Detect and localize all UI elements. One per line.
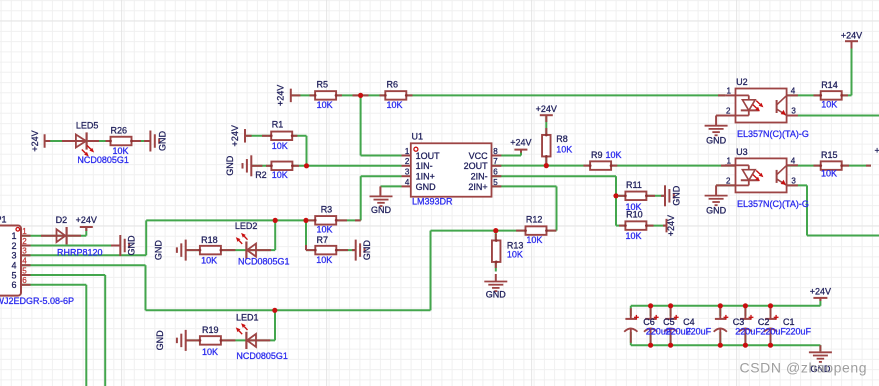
svg-text:R7: R7 (317, 235, 329, 245)
svg-text:U1: U1 (412, 132, 424, 142)
svg-text:EL357N(C)(TA)-G: EL357N(C)(TA)-G (737, 199, 809, 209)
svg-text:220uF: 220uF (786, 326, 812, 336)
svg-text:GND: GND (154, 240, 164, 261)
svg-text:U3: U3 (736, 147, 748, 157)
svg-text:10K: 10K (317, 100, 333, 110)
svg-text:4: 4 (11, 261, 16, 271)
svg-text:GND: GND (486, 290, 507, 300)
svg-text:LED5: LED5 (76, 121, 99, 131)
svg-text:C1: C1 (783, 317, 795, 327)
svg-text:10K: 10K (507, 250, 523, 260)
svg-text:R26: R26 (111, 125, 128, 135)
svg-text:+24V: +24V (230, 125, 240, 146)
svg-text:2OUT: 2OUT (464, 161, 489, 171)
svg-text:R15: R15 (821, 150, 838, 160)
svg-text:+24V: +24V (841, 31, 862, 41)
svg-text:5: 5 (11, 270, 16, 280)
svg-text:1: 1 (22, 227, 27, 236)
svg-text:R5: R5 (317, 80, 329, 90)
svg-text:GND: GND (371, 205, 392, 215)
svg-text:10K: 10K (387, 100, 403, 110)
svg-text:1IN-: 1IN- (416, 161, 433, 171)
svg-text:GND: GND (416, 182, 437, 192)
svg-text:WJ2EDGR-5.08-6P: WJ2EDGR-5.08-6P (0, 296, 74, 306)
svg-text:R14: R14 (821, 80, 838, 90)
svg-text:R10: R10 (626, 210, 643, 220)
svg-text:GND: GND (225, 155, 235, 176)
svg-text:10K: 10K (272, 141, 288, 151)
svg-text:R3: R3 (321, 205, 333, 215)
svg-text:R19: R19 (202, 325, 219, 335)
svg-text:4: 4 (22, 257, 27, 266)
svg-text:R6: R6 (387, 80, 399, 90)
svg-text:4: 4 (405, 178, 410, 187)
svg-text:2IN+: 2IN+ (468, 182, 487, 192)
svg-text:GND: GND (706, 136, 727, 146)
svg-text:C3: C3 (733, 317, 745, 327)
svg-text:GND: GND (672, 185, 682, 206)
svg-text:R9: R9 (591, 150, 603, 160)
svg-text:C2: C2 (758, 317, 770, 327)
svg-text:6: 6 (493, 168, 498, 177)
svg-text:R18: R18 (201, 235, 218, 245)
svg-text:U2: U2 (736, 77, 748, 87)
svg-text:GND: GND (155, 330, 165, 351)
svg-text:2: 2 (11, 241, 16, 251)
svg-text:2: 2 (22, 237, 27, 246)
svg-text:10K: 10K (526, 235, 542, 245)
svg-text:2IN-: 2IN- (471, 172, 488, 182)
svg-text:10K: 10K (606, 150, 622, 160)
svg-text:220uF: 220uF (735, 326, 761, 336)
svg-text:GND: GND (127, 235, 137, 256)
svg-text:3: 3 (791, 107, 796, 116)
svg-text:10K: 10K (201, 256, 217, 266)
svg-text:C4: C4 (683, 317, 695, 327)
svg-text:3: 3 (11, 251, 16, 261)
svg-text:+24V: +24V (276, 85, 286, 106)
svg-text:C6: C6 (643, 317, 655, 327)
svg-text:+24V: +24V (810, 287, 831, 297)
svg-text:2: 2 (726, 107, 731, 116)
svg-text:8: 8 (493, 147, 498, 156)
svg-text:R12: R12 (526, 215, 543, 225)
svg-text:7: 7 (493, 157, 498, 166)
svg-text:3: 3 (405, 168, 410, 177)
svg-text:GND: GND (158, 131, 168, 152)
svg-text:2: 2 (405, 157, 410, 166)
svg-text:2: 2 (726, 177, 731, 186)
svg-text:CSDN @zhaopeng: CSDN @zhaopeng (740, 360, 868, 376)
svg-text:GND: GND (362, 240, 372, 261)
svg-text:10K: 10K (821, 169, 837, 179)
svg-text:3: 3 (22, 247, 27, 256)
svg-text:5: 5 (22, 266, 27, 275)
svg-text:R2: R2 (255, 170, 267, 180)
svg-text:VCC: VCC (469, 151, 489, 161)
svg-text:10K: 10K (316, 255, 332, 265)
svg-text:10K: 10K (272, 170, 288, 180)
svg-text:GND: GND (706, 205, 727, 215)
svg-text:1IN+: 1IN+ (416, 172, 435, 182)
svg-text:+24V: +24V (666, 215, 676, 236)
svg-text:10K: 10K (202, 347, 218, 357)
svg-text:10K: 10K (821, 99, 837, 109)
svg-text:R8: R8 (556, 134, 568, 144)
svg-text:1OUT: 1OUT (416, 151, 441, 161)
svg-text:220uF: 220uF (686, 326, 712, 336)
svg-text:P1: P1 (0, 215, 7, 225)
svg-text:3: 3 (791, 177, 796, 186)
svg-text:NCD0805G1: NCD0805G1 (238, 257, 290, 267)
svg-text:4: 4 (791, 157, 796, 166)
svg-text:D2: D2 (56, 215, 68, 225)
svg-text:1: 1 (11, 231, 16, 241)
svg-text:10K: 10K (317, 225, 333, 235)
svg-text:1: 1 (727, 157, 732, 166)
svg-text:1: 1 (405, 147, 410, 156)
svg-text:10K: 10K (626, 231, 642, 241)
svg-text:LM393DR: LM393DR (412, 196, 453, 206)
svg-text:+24V: +24V (510, 138, 531, 148)
svg-text:+24V: +24V (30, 130, 40, 151)
svg-text:C5: C5 (663, 317, 675, 327)
svg-text:1: 1 (727, 87, 732, 96)
svg-text:220uF: 220uF (760, 326, 786, 336)
svg-text:10K: 10K (113, 146, 129, 156)
svg-text:EL357N(C)(TA)-G: EL357N(C)(TA)-G (737, 129, 809, 139)
svg-text:R1: R1 (272, 119, 284, 129)
svg-text:+24V: +24V (875, 145, 879, 155)
svg-text:R11: R11 (626, 180, 642, 190)
svg-text:LED1: LED1 (236, 313, 259, 323)
svg-text:6: 6 (22, 276, 27, 285)
svg-text:NCD0805G1: NCD0805G1 (236, 351, 288, 361)
svg-text:+24V: +24V (536, 104, 557, 114)
svg-text:+24V: +24V (76, 215, 97, 225)
svg-text:RHRP8120: RHRP8120 (57, 248, 103, 258)
svg-text:10K: 10K (556, 145, 572, 155)
svg-text:4: 4 (791, 87, 796, 96)
svg-text:6: 6 (11, 280, 16, 290)
svg-text:5: 5 (493, 178, 498, 187)
svg-text:LED2: LED2 (235, 221, 258, 231)
svg-text:NCD0805G1: NCD0805G1 (77, 155, 129, 165)
